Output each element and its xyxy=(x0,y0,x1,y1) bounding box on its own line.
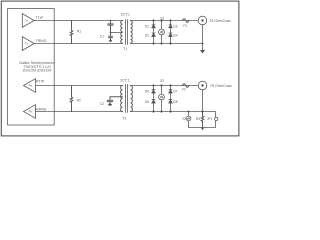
wire TRING rail xyxy=(34,43,122,45)
svg-text:TRING: TRING xyxy=(35,39,46,43)
wire T2 secondary top rail xyxy=(131,85,199,87)
diode D7 xyxy=(169,90,173,94)
wire TTIP rail xyxy=(34,20,122,22)
termination network box xyxy=(189,112,216,128)
wire T2 secondary bottom rail xyxy=(131,111,216,113)
transformer T1 core xyxy=(126,20,128,45)
bridge column left bottom xyxy=(153,86,155,112)
Rx receiver RRING triangle xyxy=(24,105,36,119)
svg-text:D7: D7 xyxy=(173,90,177,94)
ground termination network xyxy=(201,128,205,131)
ground under C1 xyxy=(109,40,112,42)
bridge column right bottom xyxy=(170,86,172,112)
junction dots bridge bottom xyxy=(152,84,154,86)
bridge column right top xyxy=(170,21,172,44)
Rx receiver RTIP triangle xyxy=(24,79,36,93)
wire coax J1 shield down xyxy=(202,25,204,50)
transformer T1 primary winding xyxy=(121,20,123,43)
diode D1 xyxy=(152,24,156,28)
ground under C2 xyxy=(108,104,112,106)
wire T1 secondary bottom rail xyxy=(131,43,203,45)
coax J2 center pin xyxy=(201,84,203,86)
transformer T2 secondary winding xyxy=(131,85,133,111)
coax J1 center pin xyxy=(201,19,203,21)
svg-text:F1: F1 xyxy=(183,24,187,28)
svg-text:Rx: Rx xyxy=(29,110,33,114)
wire T1 secondary top rail xyxy=(131,20,199,22)
svg-text:2CT:1: 2CT:1 xyxy=(121,12,130,16)
junction dot coax J1 shield to rail xyxy=(202,43,204,45)
wire C1 tap to T1 xyxy=(111,32,123,34)
resistor R2 xyxy=(70,86,73,112)
svg-text:DS3150 /DS3154: DS3150 /DS3154 xyxy=(23,68,52,72)
wire coax J2 shield down xyxy=(202,90,204,112)
Tx driver TRING triangle xyxy=(22,37,34,51)
svg-text:RTIP: RTIP xyxy=(36,79,45,83)
svg-text:C2: C2 xyxy=(100,102,104,106)
svg-text:D2: D2 xyxy=(145,33,149,37)
wire RRING rail xyxy=(36,111,123,113)
svg-text:75 OhmCoax: 75 OhmCoax xyxy=(210,84,232,88)
svg-text:T1: T1 xyxy=(123,47,127,51)
border frame xyxy=(1,1,239,136)
junction dot shield to termination xyxy=(201,110,203,112)
diode D2 xyxy=(152,33,156,37)
capacitor C2 xyxy=(107,97,122,104)
fuse F2 xyxy=(183,84,189,88)
svg-text:D4: D4 xyxy=(173,33,177,37)
svg-text:RRING: RRING xyxy=(35,107,47,111)
ground coax J1 shield xyxy=(200,50,205,53)
label Dallas Semiconductor xyxy=(19,61,56,72)
svg-text:S3: S3 xyxy=(182,117,186,121)
svg-text:R2: R2 xyxy=(77,99,81,103)
junction dot C1 tap xyxy=(110,32,112,34)
svg-text:F2: F2 xyxy=(182,88,186,92)
svg-text:C1: C1 xyxy=(100,35,104,39)
surge protector S1 xyxy=(159,29,165,35)
svg-text:Tx: Tx xyxy=(25,18,29,22)
svg-text:D6: D6 xyxy=(145,100,149,104)
diode D6 xyxy=(152,100,156,104)
coax connector J2 xyxy=(198,81,207,90)
svg-text:R3: R3 xyxy=(196,117,200,121)
diode D5 xyxy=(152,90,156,94)
svg-text:R1: R1 xyxy=(77,30,81,34)
transformer T1 secondary winding xyxy=(131,20,133,43)
connector JP1 xyxy=(215,117,218,120)
svg-text:D1: D1 xyxy=(145,25,149,29)
capacitor C1 xyxy=(108,21,113,40)
surge protector S2 xyxy=(159,94,165,100)
bridge column left top xyxy=(153,21,155,44)
svg-text:TTIP: TTIP xyxy=(35,16,43,20)
svg-text:Tx: Tx xyxy=(25,41,29,45)
svg-text:D3: D3 xyxy=(173,25,177,29)
svg-text:75 OhmCoax: 75 OhmCoax xyxy=(209,19,231,23)
transformer T2 primary winding xyxy=(121,85,123,111)
junction dots bridge top xyxy=(152,19,154,21)
svg-text:Rx: Rx xyxy=(29,84,33,88)
diode D4 xyxy=(169,33,173,37)
resistor R1 xyxy=(70,21,73,44)
coax connector J1 xyxy=(198,16,207,25)
svg-text:D8: D8 xyxy=(173,100,177,104)
surge protector S2 stubs xyxy=(161,86,163,112)
surge protector S1 stubs xyxy=(161,21,163,44)
surge protector S3 xyxy=(186,116,191,121)
resistor R3 xyxy=(201,112,204,128)
svg-text:S1: S1 xyxy=(160,16,164,20)
IC U1 Dallas DS3150 box xyxy=(8,9,55,125)
svg-text:D5: D5 xyxy=(145,90,149,94)
transformer T2 core xyxy=(126,85,128,113)
diode D8 xyxy=(169,100,173,104)
fuse F1 xyxy=(183,19,189,23)
junction dot S3 to rail xyxy=(188,111,190,113)
Tx driver TTIP triangle xyxy=(22,14,34,28)
svg-text:T2: T2 xyxy=(122,116,126,120)
svg-text:2CT:1: 2CT:1 xyxy=(120,78,129,82)
svg-text:JP1: JP1 xyxy=(207,117,213,121)
wire RTIP rail xyxy=(36,85,123,87)
diode D3 xyxy=(169,24,173,28)
svg-text:S2: S2 xyxy=(160,79,164,83)
